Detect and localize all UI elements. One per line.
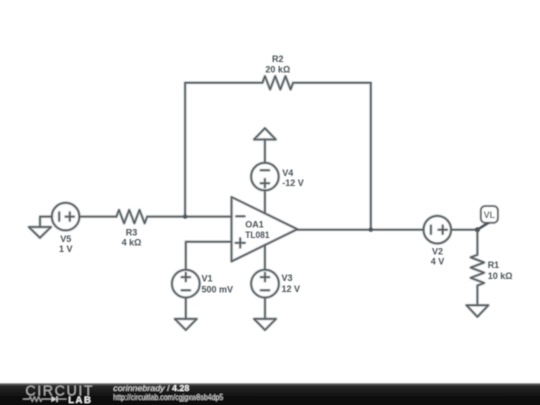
schematic main pass <box>29 54 513 330</box>
schematic soft halo pass <box>29 54 513 330</box>
svg-text:LAB: LAB <box>68 395 92 405</box>
CircuitLab logo diode <box>51 396 66 402</box>
CircuitLab logo waveform resistor zigzag <box>23 397 51 401</box>
footer bar <box>0 383 540 405</box>
svg-text:http://circuitlab.com/cgjgxw8s: http://circuitlab.com/cgjgxw8sb4dp5 <box>113 392 223 402</box>
